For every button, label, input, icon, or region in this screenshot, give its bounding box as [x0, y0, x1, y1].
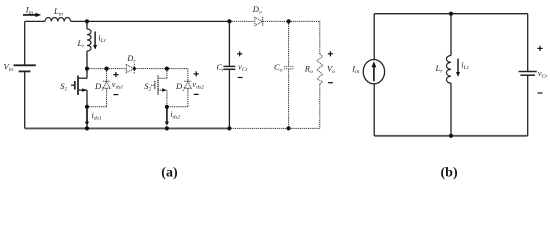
current arrow i_Lr (a) — [94, 32, 96, 46]
current source I_in — [363, 59, 384, 83]
svg-text:D1: D1 — [94, 81, 104, 93]
diode D2 (body diode of S2) — [187, 69, 189, 82]
wire: dashed bottom Co to Cr — [229, 127, 288, 129]
inductor L_r — [87, 29, 91, 51]
wire: Cr right vertical lower — [228, 69, 230, 128]
wire: left vertical lower (Vin bottom lead) — [24, 72, 26, 128]
node: Co top — [287, 19, 291, 23]
plus V_o — [328, 53, 333, 55]
svg-text:Lin: Lin — [53, 6, 63, 18]
node: S1 bottom — [85, 126, 89, 130]
wire: dashed row D1 to Dr — [107, 68, 127, 70]
node: S2 drain — [165, 67, 169, 71]
transistor S1 — [71, 76, 87, 96]
svg-text:(a): (a) — [161, 166, 178, 181]
wire: S1 source down to node — [86, 90, 88, 128]
node: Cr top — [227, 19, 231, 23]
svg-text:S2: S2 — [144, 81, 151, 93]
svg-text:vds2: vds2 — [192, 79, 204, 91]
svg-text:Vo: Vo — [327, 64, 335, 76]
svg-text:Do: Do — [252, 4, 262, 16]
wire: bottom wire solid — [25, 127, 230, 129]
current arrow i_ds2 — [166, 109, 168, 123]
svg-text:Lr: Lr — [435, 63, 444, 75]
wire: dashed row Dr to S2 node — [134, 68, 167, 70]
node: Co bottom — [287, 126, 291, 130]
inductor L_r (b) — [446, 56, 451, 84]
current source arrow — [373, 67, 375, 82]
wire: (b) left vertical upper — [373, 14, 375, 60]
minus v_Cr — [238, 77, 243, 79]
wire: dashed top Do to Co node — [263, 20, 289, 22]
svg-text:Ro: Ro — [304, 63, 313, 75]
minus v_Cr (b) — [538, 92, 543, 94]
wire: left vertical upper (Vin top lead) — [24, 21, 26, 64]
svg-text:D2: D2 — [175, 81, 185, 93]
capacitor C_r (b) — [519, 72, 537, 76]
plus v_Cr (b) — [537, 46, 542, 93]
S1 source arrow — [82, 88, 86, 92]
plus v_Cr — [237, 53, 242, 55]
node: S1 source — [85, 105, 89, 109]
plus v_ds2 — [194, 73, 199, 75]
diode D1 (body diode of S1) — [106, 69, 108, 82]
node: top Lr junction — [85, 19, 89, 23]
svg-text:Iin: Iin — [351, 63, 359, 75]
svg-text:Co: Co — [274, 62, 283, 74]
node: Dr cathode — [133, 67, 136, 70]
minus V_o — [328, 82, 333, 84]
junction dots (a) — [85, 19, 291, 130]
svg-text:Lr: Lr — [77, 38, 86, 50]
wire: dashed top Co node to Ro corner — [289, 20, 320, 22]
wire: Lr branch top stub — [86, 21, 88, 29]
wire: (b) Lr branch bottom stub — [450, 83, 452, 136]
wire: top wire left segment — [25, 20, 45, 22]
wire: dashed bottom Ro to Co — [289, 127, 320, 129]
inductor L_in — [45, 17, 71, 21]
wire: top wire right segment — [71, 20, 230, 22]
svg-text:iLr: iLr — [98, 33, 106, 45]
diode D_o — [255, 17, 263, 25]
wire: Ro right vertical lower — [319, 84, 321, 128]
wire: (b) left vertical lower — [373, 84, 375, 136]
node: Cr bottom — [227, 126, 231, 130]
wire: dashed row node B to D1 — [87, 68, 107, 70]
svg-text:iLr: iLr — [461, 60, 469, 72]
svg-text:Dr: Dr — [126, 53, 136, 65]
wire: (b) bottom wire — [374, 135, 528, 137]
capacitor C_r — [223, 66, 235, 69]
wire: dashed row S2 node to D2 corner — [167, 68, 188, 70]
svg-text:Cr: Cr — [217, 62, 226, 74]
wire: dashed top from Cr node to Do — [229, 20, 255, 22]
current arrow I_in — [23, 14, 36, 16]
node: B (S1 drain) — [85, 67, 89, 71]
svg-text:vCr: vCr — [538, 68, 549, 80]
node: (b) Lr top — [449, 12, 453, 16]
battery V_in — [14, 65, 36, 71]
node: (b) Lr bottom — [449, 134, 453, 138]
wire: Lr to node B — [86, 51, 88, 78]
svg-text:S1: S1 — [60, 81, 67, 93]
node: D1 top — [105, 67, 109, 71]
plus/minus marks (a) — [113, 51, 333, 94]
svg-text:vCr: vCr — [238, 62, 249, 74]
svg-text:Vin: Vin — [4, 62, 14, 74]
svg-text:ids2: ids2 — [170, 109, 180, 121]
current arrow i_ds1 — [86, 110, 88, 123]
resistor R_o — [317, 54, 323, 84]
wire: (b) right vertical lower — [527, 75, 529, 135]
minus v_ds2 — [194, 93, 199, 95]
wire: (b) right vertical upper — [527, 14, 529, 71]
transistor S2 (dashed) — [166, 69, 168, 79]
svg-text:vds1: vds1 — [112, 79, 124, 91]
wire: (b) top wire — [374, 13, 528, 15]
wire: Co vertical lower — [288, 69, 290, 128]
node: S2 bottom — [165, 126, 169, 130]
current arrow i_Lr (b) — [457, 59, 459, 73]
capacitor C_o — [284, 65, 294, 67]
wire: Cr right vertical upper — [228, 21, 230, 66]
wire: D2 bottom to S2 source node — [167, 106, 188, 108]
svg-text:Iin: Iin — [25, 5, 33, 17]
node: S2 source — [165, 105, 169, 109]
junction dots (b) — [449, 12, 453, 138]
plus v_ds1 — [113, 74, 118, 76]
minus v_ds1 — [113, 94, 118, 96]
wire: D1 bottom to S1 source node — [87, 106, 107, 108]
svg-text:(b): (b) — [441, 166, 458, 181]
wire: (b) Lr branch top stub — [450, 14, 452, 56]
diode D_r — [126, 65, 134, 73]
wire: Ro right vertical upper — [319, 21, 321, 54]
svg-text:ids1: ids1 — [92, 110, 102, 122]
wire: Co vertical upper — [288, 21, 290, 66]
